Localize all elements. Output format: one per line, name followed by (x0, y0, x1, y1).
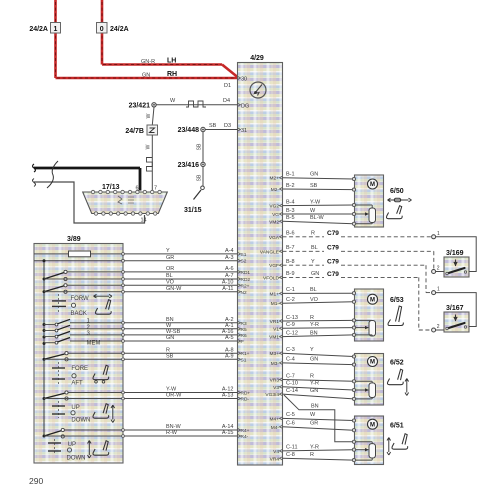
svg-text:C79: C79 (327, 259, 339, 266)
mechanical link dashes FORE/AFT (52, 362, 65, 385)
svg-text:R: R (310, 315, 314, 321)
wire GN from 4/29 C-4 to motor 6/52 (271, 357, 354, 367)
svg-text:1: 1 (437, 287, 440, 293)
wire Y from 4/29 C-3 to motor 6/52 (270, 347, 354, 357)
svg-text:DOWN: DOWN (67, 456, 86, 462)
wire SB from 23/416 down to ground 31/15 (197, 167, 204, 186)
svg-text:M2+: M2+ (270, 176, 280, 182)
svg-text:DOWN: DOWN (71, 418, 90, 424)
labels 1 2 3 MEM (87, 319, 101, 347)
svg-text:BL: BL (310, 287, 317, 293)
svg-text:C-5: C-5 (286, 412, 295, 418)
label GN-R / LH on upper red wire (141, 58, 176, 66)
svg-text:GN: GN (311, 271, 319, 277)
wire SB from 23/448 down to 23/416 (197, 132, 204, 163)
svg-text:BN: BN (310, 330, 318, 336)
svg-text:C-3: C-3 (286, 347, 295, 353)
control module 4/29 body (238, 63, 283, 466)
wire red supply left from fuse 1 down and right to 4/29 pin 30 (56, 0, 238, 78)
svg-text:M: M (370, 422, 375, 428)
switch UP/DOWN front contacts (44, 391, 68, 400)
svg-text:24/2A: 24/2A (110, 26, 129, 33)
wire R from 4/29 C-8 to 6/51 sensor (270, 452, 354, 462)
svg-text:N2: N2 (241, 290, 247, 296)
svg-text:M4+: M4+ (270, 416, 280, 422)
connector 17/13 body (trapezoid) (83, 192, 168, 214)
svg-text:R4-: R4- (241, 434, 249, 440)
svg-text:C-14: C-14 (286, 388, 298, 394)
svg-text:M4-: M4- (271, 425, 280, 431)
svg-text:B-1: B-1 (286, 172, 295, 178)
svg-text:6/51: 6/51 (390, 423, 404, 430)
svg-text:VG2: VG2 (269, 204, 279, 210)
mechanical link dashes FORW/BACK (52, 294, 66, 312)
svg-text:4/29: 4/29 (250, 55, 264, 62)
node 23/416 (201, 162, 205, 166)
svg-text:A-11: A-11 (222, 286, 233, 292)
svg-text:RD-: RD- (241, 397, 250, 403)
svg-text:OR: OR (166, 266, 174, 272)
wire GR from 3/89 to 4/29 pin A-3 (122, 255, 247, 265)
wire W-SB from 3/89 to 4/29 pin A-16 (122, 329, 247, 339)
svg-text:C79: C79 (327, 230, 339, 237)
svg-text:VR4: VR4 (270, 456, 280, 462)
wire SB from 3/89 to 4/29 pin A-9 (44, 354, 247, 364)
connector pins of 6/51 (352, 419, 355, 462)
wire GN (C79) from 4/29 B-9 to sensor 3/167 pin 2 (283, 277, 432, 330)
motor symbol M of 6/53 (368, 294, 378, 304)
svg-text:OR-W: OR-W (166, 393, 182, 399)
svg-text:A-7: A-7 (225, 273, 234, 279)
switch bank 1/2/3/MEM levers (44, 319, 123, 344)
svg-text:GN-W: GN-W (166, 286, 182, 292)
switch position circle (72, 374, 76, 378)
svg-text:SB: SB (197, 143, 203, 150)
svg-text:R3: R3 (241, 321, 247, 327)
svg-text:6/52: 6/52 (390, 360, 404, 367)
svg-text:C-2: C-2 (286, 297, 295, 303)
svg-text:Y-R: Y-R (310, 445, 319, 451)
svg-text:FORE: FORE (71, 366, 88, 372)
wire GR inside 3/89 (34, 260, 123, 262)
connector pins of 6/52 (352, 355, 355, 401)
pin 30 of 4/29 (238, 76, 248, 82)
wire Y-W from 3/89 to 4/29 pin A-12 (68, 387, 250, 397)
svg-text:3/169: 3/169 (446, 250, 464, 257)
ground point 31/15 (194, 186, 205, 200)
svg-text:GN: GN (142, 73, 150, 79)
wire GN from 3/89 to 4/29 pin A-5 (122, 335, 244, 345)
svg-text:R: R (166, 347, 170, 353)
seat icon backrest 6/53 (388, 306, 403, 326)
svg-text:W: W (310, 208, 316, 214)
svg-text:M: M (370, 182, 375, 188)
wire VO from 4/29 C-2 to motor 6/53 (271, 297, 354, 307)
wire R from 3/89 to 4/29 pin A-8 (68, 347, 250, 357)
break slash across wires (47, 161, 58, 188)
svg-text:C79: C79 (327, 245, 339, 252)
svg-text:0: 0 (100, 26, 104, 33)
svg-text:A-15: A-15 (222, 430, 234, 436)
svg-text:31: 31 (241, 128, 247, 134)
seat icon UP/DOWN rear (88, 441, 109, 459)
seat icon FORE/AFT (93, 365, 109, 383)
svg-text:R-W: R-W (166, 430, 178, 436)
pin 1 of 3/169 (432, 231, 440, 239)
wire Y (C79) from 4/29 B-8 to sensor 3/167 pin 1 (283, 265, 432, 292)
wire BL from 3/89 to 4/29 pin A-7 (44, 273, 250, 283)
svg-text:V4: V4 (273, 449, 279, 455)
svg-text:24/2A: 24/2A (29, 26, 48, 33)
svg-text:C-12: C-12 (286, 330, 298, 336)
switch position circle (67, 448, 71, 452)
wire BN from 4/29 C-12 to 6/53 sensor (269, 330, 353, 340)
wire BN-W from 3/89 to 4/29 pin A-14 (64, 424, 249, 434)
svg-text:W: W (166, 323, 172, 329)
svg-text:C-1: C-1 (286, 287, 295, 293)
pin 1 of 3/167 (432, 287, 440, 295)
svg-text:R5: R5 (241, 327, 247, 333)
pin 31 of 4/29 (238, 128, 248, 134)
pins bottom row of 17/13 (94, 212, 157, 215)
svg-text:A-1: A-1 (225, 323, 234, 329)
svg-text:BN: BN (311, 404, 319, 410)
wire GN from 4/29 B-1 to motor 6/50 (270, 172, 354, 182)
svg-text:290: 290 (29, 476, 43, 486)
svg-text:B-6: B-6 (286, 231, 295, 237)
wire Y-R from 4/29 C-10 to 6/52 sensor (273, 381, 353, 391)
svg-text:VM1: VM1 (269, 335, 279, 341)
svg-text:GN-R: GN-R (141, 59, 155, 65)
connector pins of 6/53 (352, 292, 355, 337)
position sensor 3/169 body (444, 257, 469, 277)
svg-text:C-6: C-6 (286, 421, 295, 427)
wire W from 3/89 to 4/29 pin A-1 (122, 323, 247, 333)
svg-text:VM2: VM2 (269, 219, 279, 225)
svg-text:W: W (310, 412, 316, 418)
svg-text:C79: C79 (327, 271, 339, 278)
seat icon front height 6/52 (387, 369, 408, 395)
wire W from 24/7B down to 17/13 pin 7 (146, 135, 153, 192)
position sensor potentiometer of 6/51 (355, 442, 376, 460)
motor symbol M of 6/50 (368, 179, 378, 189)
svg-text:R4+: R4+ (241, 428, 250, 434)
svg-text:W: W (146, 113, 152, 118)
wire R (C79) from 4/29 B-6 to sensor 3/169 pin 1 (283, 236, 432, 238)
svg-text:Y-R: Y-R (310, 322, 319, 328)
motor unit 6/51 body (355, 416, 384, 465)
position sensor potentiometer of 6/52 (355, 381, 376, 399)
svg-text:V1: V1 (273, 326, 279, 332)
svg-text:2: 2 (437, 266, 440, 272)
svg-text:W-SB: W-SB (166, 329, 181, 335)
wire GR from 4/29 C-6 to motor 6/51 (271, 421, 354, 431)
svg-text:Y-W: Y-W (310, 199, 321, 205)
svg-text:C-4: C-4 (286, 357, 295, 363)
resistor inside 3/89 (34, 251, 123, 257)
switch position circle (71, 411, 75, 415)
svg-text:D1: D1 (224, 83, 231, 89)
svg-text:R6: R6 (241, 333, 247, 339)
svg-text:17/13: 17/13 (102, 184, 120, 191)
svg-text:D4: D4 (223, 98, 230, 104)
wire W from 23/421 down to 24/7B (146, 107, 154, 125)
switch FORE/AFT contacts (44, 352, 68, 361)
pins top row of 17/13 (91, 190, 161, 193)
svg-text:S1: S1 (241, 252, 247, 258)
supply bus inside 3/89 (43, 259, 46, 437)
switch FORW/BACK contacts (44, 270, 67, 293)
motor symbol M of 6/51 (368, 419, 378, 429)
seat icon UP/DOWN front (93, 404, 115, 423)
svg-text:7: 7 (154, 186, 157, 192)
svg-text:R: R (310, 373, 314, 379)
svg-text:B-4: B-4 (286, 199, 295, 205)
svg-text:B-9: B-9 (286, 271, 295, 277)
wire GN from 4/29 C-14 to 6/52 sensor (265, 388, 353, 399)
svg-text:6: 6 (136, 186, 139, 192)
svg-text:VGF: VGF (269, 263, 279, 269)
svg-text:A-9: A-9 (225, 354, 234, 360)
pin 2 of 3/167 (432, 324, 444, 332)
fuse 24/2A (left, fuse 1) (51, 23, 61, 34)
svg-text:M3-: M3- (271, 361, 280, 367)
svg-text:A-8: A-8 (225, 347, 234, 353)
svg-text:D3: D3 (224, 123, 231, 129)
position sensor 3/167 body (444, 312, 469, 332)
svg-text:Y: Y (166, 248, 170, 254)
svg-text:RD1: RD1 (241, 270, 251, 276)
svg-text:VG: VG (272, 212, 279, 218)
wire loop from 3/167 pin 1 to pin 3 (436, 293, 477, 327)
svg-text:GN: GN (310, 388, 318, 394)
svg-text:Y-R: Y-R (310, 381, 319, 387)
svg-text:6/53: 6/53 (390, 297, 404, 304)
svg-text:A-4: A-4 (225, 248, 234, 254)
square wave signal symbol on W wire (186, 101, 206, 107)
svg-text:BACK: BACK (71, 311, 87, 317)
svg-text:BL: BL (311, 245, 318, 251)
wire SB from node 23/448 to 4/29 pin 31 (205, 129, 238, 131)
svg-text:VR3: VR3 (270, 378, 280, 384)
wire W from node 23/421 to 4/29 pin DG (156, 104, 238, 106)
wire BL (C79) from 4/29 B-7 to sensor 3/169 pin 2 (283, 251, 434, 269)
svg-text:R2+: R2+ (241, 283, 250, 289)
wire BN from 3/89 to 4/29 pin A-2 (122, 317, 247, 327)
svg-text:R1+: R1+ (241, 351, 250, 357)
clock symbol inside 4/29 (250, 82, 266, 98)
svg-text:A-10: A-10 (222, 280, 234, 286)
svg-text:A-16: A-16 (222, 329, 234, 335)
svg-text:GN: GN (310, 172, 318, 178)
wire R from 4/29 C-13 to 6/53 sensor (270, 315, 354, 325)
svg-text:3/89: 3/89 (67, 236, 81, 243)
label GN / RH on lower red wire (142, 71, 177, 79)
svg-text:23/421: 23/421 (129, 102, 151, 109)
motor symbol M of 6/52 (368, 357, 378, 367)
motor unit 6/50 body (355, 175, 384, 227)
svg-text:VR1: VR1 (270, 319, 280, 325)
switch position circle (71, 303, 75, 307)
svg-text:SB: SB (209, 123, 217, 129)
svg-text:R: R (310, 452, 314, 458)
svg-text:C-7: C-7 (286, 373, 295, 379)
node 23/421 (152, 103, 156, 107)
svg-text:SB: SB (166, 354, 174, 360)
svg-text:MEM: MEM (87, 341, 101, 347)
seat icon rear height 6/51 (387, 434, 408, 455)
wire OR-W from 3/89 to 4/29 pin A-13 (44, 393, 249, 403)
wire Y-W from 4/29 B-4 to 6/50 sensor (269, 199, 353, 209)
svg-text:B-7: B-7 (286, 245, 295, 251)
seat icon FORW/BACK (94, 294, 113, 314)
svg-text:VFOLD: VFOLD (263, 275, 280, 281)
svg-text:FORW: FORW (71, 296, 90, 302)
svg-text:23/448: 23/448 (178, 127, 200, 134)
svg-text:P: P (241, 339, 244, 345)
svg-text:Y: Y (310, 347, 314, 353)
svg-text:GR: GR (310, 421, 318, 427)
unit 24/7B (147, 125, 158, 135)
square wave symbol vertical on W wire (147, 158, 153, 172)
mechanical link dashes UP/DOWN front (52, 401, 65, 418)
svg-text:M: M (370, 297, 375, 303)
svg-text:S2: S2 (241, 259, 247, 265)
wire R-W from 3/89 to 4/29 pin A-15 (44, 430, 249, 440)
svg-text:R: R (311, 231, 315, 237)
wire Y from 3/89 to 4/29 pin A-4 (122, 248, 247, 258)
svg-text:M3+: M3+ (270, 351, 280, 357)
svg-text:A-3: A-3 (225, 255, 234, 261)
svg-text:C-9: C-9 (286, 322, 295, 328)
position sensor potentiometer of 6/50 (355, 205, 376, 224)
wire W from 4/29 B-3 to 6/50 sensor (272, 208, 353, 218)
potentiometer symbol of 3/167 (446, 315, 467, 330)
svg-text:A-5: A-5 (225, 335, 234, 341)
svg-text:Y: Y (311, 259, 315, 265)
svg-text:C-11: C-11 (286, 445, 298, 451)
svg-text:1: 1 (437, 231, 440, 237)
switch pack 3/89 body (34, 244, 123, 464)
svg-text:S1: S1 (241, 357, 247, 363)
position sensor potentiometer of 6/53 (355, 320, 376, 336)
svg-text:AFT: AFT (71, 381, 83, 387)
svg-text:VGA: VGA (269, 235, 280, 241)
wire GN-W from 3/89 to 4/29 pin A-11 (44, 286, 247, 296)
svg-text:A-13: A-13 (222, 393, 234, 399)
svg-text:B-5: B-5 (286, 215, 295, 221)
fuse 24/2A (right, fuse 0) (97, 23, 108, 34)
switch UP/DOWN rear contacts (44, 428, 64, 438)
svg-text:RD2: RD2 (241, 277, 251, 283)
svg-text:24/7B: 24/7B (125, 128, 144, 135)
svg-text:31/15: 31/15 (184, 207, 202, 214)
svg-text:LH: LH (167, 58, 176, 65)
svg-text:GR: GR (166, 255, 174, 261)
svg-text:C-8: C-8 (286, 452, 295, 458)
svg-text:DG: DG (241, 103, 249, 109)
svg-text:B-2: B-2 (286, 183, 295, 189)
svg-text:UP: UP (71, 405, 79, 411)
thick wire to 17/13 pin 6 (33, 164, 141, 191)
svg-text:BL-W: BL-W (310, 215, 325, 221)
wire SB from 4/29 B-2 to motor 6/50 (271, 183, 354, 193)
svg-text:W: W (170, 98, 176, 104)
svg-text:B-8: B-8 (286, 259, 295, 265)
svg-text:BL: BL (166, 273, 173, 279)
svg-text:UP: UP (68, 442, 76, 448)
svg-text:1: 1 (54, 26, 58, 33)
svg-text:30: 30 (241, 77, 247, 83)
wire to 17/13 pin 14 (33, 179, 145, 224)
svg-text:M1-: M1- (271, 301, 280, 307)
svg-text:VO: VO (310, 297, 319, 303)
svg-text:VG3/4: VG3/4 (265, 392, 279, 398)
connector pins of 6/50 (352, 177, 355, 225)
motor unit 6/52 body (355, 354, 384, 406)
svg-text:GN: GN (310, 357, 318, 363)
svg-text:RD+: RD+ (241, 391, 251, 397)
svg-text:SB: SB (310, 183, 318, 189)
wire Y-R from 4/29 C-9 to 6/53 sensor (273, 322, 353, 332)
svg-text:M1+: M1+ (270, 291, 280, 297)
wire red supply right from fuse 2 down then right, joining at pin 30 (102, 0, 238, 77)
pin DG of 4/29 (238, 103, 250, 109)
wire R from 4/29 C-7 to 6/52 sensor (270, 373, 354, 383)
svg-text:V3: V3 (273, 385, 279, 391)
wire VO from 3/89 to 4/29 pin A-10 (67, 280, 250, 290)
svg-text:GN: GN (166, 335, 174, 341)
svg-text:VANGLE: VANGLE (260, 249, 279, 255)
motor unit 6/53 body (355, 289, 384, 341)
svg-text:C-13: C-13 (286, 315, 298, 321)
svg-text:SB: SB (197, 174, 203, 181)
mechanical link dashes UP/DOWN rear (48, 439, 61, 455)
seat icon head restraint 6/50 (386, 198, 411, 219)
wire W from 4/29 C-5 to motor 6/51 (270, 412, 354, 422)
wire Y-R from 4/29 C-11 to 6/51 sensor (273, 445, 353, 455)
svg-text:6/50: 6/50 (390, 188, 404, 195)
svg-text:23/416: 23/416 (178, 162, 200, 169)
pin 2 of 3/169 (432, 266, 444, 274)
wire BL-W from 4/29 B-5 to 6/50 sensor (269, 215, 353, 225)
svg-text:VO: VO (166, 280, 175, 286)
svg-text:RH: RH (167, 71, 177, 78)
svg-text:3/167: 3/167 (446, 305, 464, 312)
wire BL from 4/29 C-1 to motor 6/53 (270, 287, 354, 297)
svg-text:B-3: B-3 (286, 208, 295, 214)
svg-text:C-10: C-10 (286, 381, 298, 387)
svg-text:M2-: M2- (271, 187, 280, 193)
node 23/448 (201, 127, 205, 131)
svg-text:2: 2 (437, 324, 440, 330)
potentiometer symbol of 3/169 (446, 260, 467, 275)
wire BN branch from C-14 to 6/51 sensor (284, 395, 354, 442)
wire loop from 3/169 pin 1 to pin 3 (436, 237, 477, 272)
wire OR from 3/89 to 4/29 pin A-6 (67, 266, 250, 276)
svg-text:A-6: A-6 (225, 266, 234, 272)
svg-text:W: W (146, 144, 152, 149)
svg-text:M: M (370, 360, 375, 366)
